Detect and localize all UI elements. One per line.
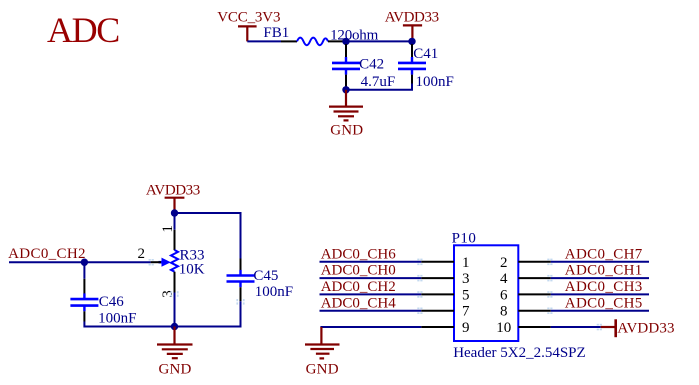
- wire pin9 to GND: [320, 326, 421, 328]
- capacitor C46 pin 2: [83, 311, 85, 321]
- potentiometer R33 pin 2 (wiper pin): [151, 261, 161, 263]
- svg-text:FB1: FB1: [263, 25, 289, 41]
- capacitor C41 pin 2: [411, 75, 413, 84]
- header P10 pin 1: [421, 261, 454, 263]
- svg-text:ADC0_CH2: ADC0_CH2: [8, 246, 86, 262]
- svg-text:1: 1: [462, 255, 470, 271]
- svg-text:ADC0_CH0: ADC0_CH0: [321, 263, 396, 279]
- wire pin10 to AVDD33: [551, 326, 601, 328]
- wire R33 pin3 to bottom rail: [174, 293, 176, 327]
- capacitor C45 body: [227, 270, 255, 287]
- svg-text:GND: GND: [158, 361, 191, 377]
- svg-text:Header 5X2_2.54SPZ: Header 5X2_2.54SPZ: [453, 345, 585, 361]
- svg-text:ADC0_CH6: ADC0_CH6: [321, 246, 397, 262]
- header P10 pin 2: [518, 261, 551, 263]
- header P10 pin 3: [421, 277, 454, 279]
- potentiometer R33 pin 3: [174, 272, 176, 293]
- svg-text:100nF: 100nF: [416, 74, 454, 90]
- wire junction to C46: [83, 262, 85, 279]
- svg-text:2: 2: [500, 255, 508, 271]
- junction at C46 top: [81, 259, 88, 266]
- svg-text:C42: C42: [359, 57, 384, 73]
- svg-text:5: 5: [462, 287, 470, 303]
- svg-text:C45: C45: [253, 268, 278, 284]
- header P10 pin 10: [518, 326, 551, 328]
- ferrite bead FB1 body: [297, 38, 328, 46]
- capacitor C42 body: [332, 57, 360, 75]
- header P10 pin 8: [518, 310, 551, 312]
- svg-text:10: 10: [496, 320, 511, 336]
- wire VCC to FB1: [247, 40, 281, 42]
- svg-text:8: 8: [500, 304, 508, 320]
- wire ADC0_CH5: [551, 310, 649, 312]
- capacitor C46 body: [70, 293, 98, 311]
- svg-text:ADC0_CH2: ADC0_CH2: [321, 279, 396, 295]
- header P10 pin 9: [421, 326, 454, 328]
- header P10 pin 5: [421, 293, 454, 295]
- svg-text:10K: 10K: [179, 262, 205, 278]
- svg-text:6: 6: [500, 287, 508, 303]
- ground symbol GND (top): [329, 90, 363, 121]
- junction at C42 bottom: [342, 86, 349, 93]
- svg-text:ADC0_CH3: ADC0_CH3: [565, 279, 643, 295]
- svg-text:100nF: 100nF: [255, 284, 293, 300]
- svg-text:ADC0_CH7: ADC0_CH7: [565, 246, 643, 262]
- svg-text:1: 1: [160, 225, 176, 233]
- junction at FB1 output: [342, 38, 349, 45]
- svg-text:4: 4: [500, 271, 508, 287]
- svg-text:ADC0_CH1: ADC0_CH1: [565, 263, 643, 279]
- capacitor C45 pin 1: [240, 259, 242, 271]
- junction at AVDD33 left: [171, 209, 178, 216]
- wire ADC0_CH3: [551, 293, 649, 295]
- wire ADC0_CH6: [320, 261, 422, 263]
- power bar VCC_3V3: [238, 26, 257, 41]
- svg-text:100nF: 100nF: [98, 311, 136, 327]
- potentiometer R33 wiper arrow: [159, 261, 163, 264]
- capacitor C42 pin 1: [345, 44, 347, 57]
- header P10 pin 4: [518, 277, 551, 279]
- svg-text:ADC0_CH5: ADC0_CH5: [565, 295, 643, 311]
- capacitor C42 pin 2: [345, 75, 347, 90]
- ground symbol GND (header): [305, 327, 340, 358]
- svg-text:3: 3: [160, 290, 176, 298]
- header P10 pin 7: [421, 310, 454, 312]
- wire end markers: [149, 259, 602, 331]
- header P10 body: [454, 245, 518, 341]
- svg-text:2: 2: [137, 246, 145, 262]
- wire bottom rail C46 to C45: [84, 322, 240, 327]
- potentiometer R33 pin 1: [174, 230, 176, 250]
- wire ADC0_CH2 to R33 wiper: [9, 261, 151, 263]
- wire ADC0_CH0: [320, 277, 422, 279]
- svg-text:GND: GND: [330, 122, 363, 138]
- wire C45 bottom to rail: [240, 301, 242, 327]
- potentiometer R33 body: [171, 250, 178, 272]
- capacitor C41 pin 1: [411, 44, 413, 57]
- wire FB1 to AVDD33: [346, 40, 412, 42]
- wire ADC0_CH7: [551, 261, 649, 263]
- wire ADC0_CH2 (header): [320, 293, 422, 295]
- wire ADC0_CH1: [551, 277, 649, 279]
- power bar AVDD33 (pin10): [601, 319, 616, 337]
- svg-text:AVDD33: AVDD33: [146, 182, 200, 198]
- wire ADC0_CH4: [320, 310, 422, 312]
- svg-text:P10: P10: [452, 231, 477, 247]
- svg-text:C46: C46: [99, 294, 125, 310]
- capacitor C45 pin 2: [240, 287, 242, 301]
- power bar AVDD33 (left): [165, 198, 185, 213]
- wire C41 bottom to GND rail: [346, 84, 412, 90]
- ferrite bead FB1 pin 2: [328, 40, 346, 42]
- junction at AVDD33: [408, 38, 415, 45]
- svg-text:ADC: ADC: [47, 10, 119, 50]
- svg-text:GND: GND: [306, 362, 339, 378]
- svg-text:ADC0_CH4: ADC0_CH4: [321, 295, 397, 311]
- capacitor C46 pin 1: [83, 279, 85, 294]
- junction at R33 bottom: [171, 323, 178, 330]
- svg-text:9: 9: [462, 320, 470, 336]
- svg-text:7: 7: [462, 304, 470, 320]
- svg-text:VCC_3V3: VCC_3V3: [217, 10, 280, 26]
- svg-text:4.7uF: 4.7uF: [361, 74, 396, 90]
- svg-text:AVDD33: AVDD33: [617, 321, 674, 337]
- svg-text:3: 3: [462, 271, 470, 287]
- ferrite bead FB1 pin 1: [281, 40, 297, 42]
- capacitor C41 body: [398, 57, 426, 75]
- header P10 pin 6: [518, 293, 551, 295]
- wire AVDD33 to C45 branch: [175, 213, 241, 259]
- svg-text:AVDD33: AVDD33: [385, 10, 439, 26]
- svg-text:C41: C41: [413, 46, 438, 62]
- ground symbol GND (left): [157, 327, 193, 359]
- wire AVDD33 down to R33: [174, 213, 176, 230]
- power bar AVDD33 (top): [403, 25, 422, 41]
